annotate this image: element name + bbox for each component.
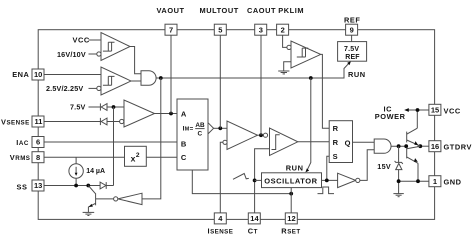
wire VCC to comparator U2 [89,39,102,41]
label ENA [12,70,29,79]
svg-text:2.5V/2.25V: 2.5V/2.25V [46,84,83,93]
svg-text:12: 12 [287,214,295,223]
wire AND gate U14 output to driver bases [391,145,408,147]
wire VAOUT to pin 7 [170,35,172,113]
node CT oscillator ramp [253,179,257,183]
pin 15 VCC [429,104,441,115]
label 14 uA [86,168,105,175]
pin 11 VSENSE [32,116,44,127]
pin 4 ISENSE [214,213,226,224]
node driver base [404,144,408,148]
svg-text:MULTOUT: MULTOUT [200,6,239,15]
node oscillator clock [325,179,329,183]
svg-text:=: = [190,126,194,133]
wire CT node to oscillator [255,179,262,181]
svg-text:ENA: ENA [12,70,29,79]
svg-text:ISENSE: ISENSE [208,226,234,235]
node soft-start clamp [112,105,116,109]
wire IAC pin 6 to multiplier B input [44,141,177,143]
wire GND rail to pin 1 [399,180,430,182]
label ISENSE [208,226,234,235]
comparator U3 (ENA 2.5V/2.25V) [97,67,131,95]
svg-text:C: C [198,130,203,137]
pin 7 VAOUT [165,24,177,35]
svg-text:16: 16 [431,142,439,151]
node low side emitter ground [416,179,420,183]
comparator U2 (VCC UVLO 16V/10V) [97,33,130,61]
svg-text:POWER: POWER [375,112,406,121]
svg-text:14 µA: 14 µA [86,168,105,175]
label IAC [16,138,29,147]
node zener clamp [397,144,401,148]
wire soft-start clamp vertical to diode D3 [113,107,115,186]
svg-text:RUN: RUN [348,70,366,79]
comparator U10 (peak limit) [287,41,321,68]
wire VCC pin 15 with IC POWER arrow [404,108,429,112]
svg-text:CAOUT: CAOUT [247,6,276,15]
label 15V zener [377,162,391,171]
pin 5 MULTOUT [214,24,226,35]
label VCC right side [444,107,461,116]
svg-text:VCC: VCC [444,107,461,116]
wire oscillator output to inverter U13 [322,179,338,181]
wire squarer X1 output to multiplier C input [146,156,177,158]
pin 1 GND [429,176,441,187]
pin 14 CT [248,213,260,224]
label RUN at oscillator [286,164,304,173]
svg-text:Q: Q [345,139,351,148]
label 2.5V/2.25V [46,84,83,93]
label VSENSE [1,117,30,126]
wire ISENSE pin 4 to current amp U7 inverting input [220,142,223,214]
svg-text:CT: CT [248,226,258,235]
svg-text:RSET: RSET [281,226,300,235]
op-amp U5 (voltage amplifier) [120,100,155,127]
wire RSET node to oscillator [290,188,292,194]
IC boundary U1 [38,30,434,220]
clock pulse waveform symbol [318,187,335,194]
pin 10 ENA [32,69,44,80]
node RUN at AND output [159,76,163,80]
label VAOUT [157,6,185,15]
pin 12 RSET [285,213,297,224]
wire MULTOUT to pin 5 [219,35,221,128]
sawtooth waveform symbol [233,174,249,180]
wire diode D1 to voltage amp U5 noninverting input [107,106,124,108]
svg-text:R: R [333,124,339,133]
node zener ground [397,179,401,183]
wire oscillator clock to flip-flop S input [327,156,329,180]
wire ENA pin 10 to comparator U3 [44,74,101,76]
squarer X1 (x squared block) [125,146,147,166]
svg-text:3: 3 [259,25,263,34]
svg-text:11: 11 [35,117,43,126]
svg-text:2: 2 [136,152,140,159]
svg-text:PKLIM: PKLIM [278,6,304,15]
current source I1 14uA soft start [69,157,83,185]
wire 2.5V/2.25V threshold to comparator U3 [89,87,97,89]
arrowhead RUN into 7.5V REF block [347,61,351,65]
svg-text:VRMS: VRMS [10,153,31,162]
wire PWM comparator U9 output to flip-flop R input [298,141,329,143]
ground symbol at zener D4 [393,194,403,197]
voltage reference block U15 (7.5V REF) [338,42,367,62]
wire 16V/10V threshold to comparator U2 [89,53,97,55]
multiplier U6 (Im = AB/C) [177,99,214,170]
svg-text:10: 10 [34,70,42,79]
svg-text:13: 13 [34,181,42,190]
pin 9 REF [346,24,358,35]
node RUN branch to oscillator [309,76,313,80]
wire VSENSE pin 11 to voltage amp U5 inverting input [44,121,119,123]
diode D2 (VSENSE clamp) [100,118,107,125]
svg-text:R: R [333,138,339,147]
AND gate U4 (enable logic) [141,71,156,86]
wire SS pin 13 rail [44,185,100,187]
zener diode D4 (15V clamp) [395,146,403,193]
svg-text:C: C [181,153,187,162]
wire RUN down to soft-start inverter U8 [142,78,161,199]
label SS [17,182,28,191]
wire comparator U10 output to flip-flop R input [321,54,330,128]
wire CT ramp to PWM comparator U9 [255,149,270,214]
inverter U8 (soft start discharge driver) [96,193,142,204]
transistor Q2 (totem pole high side) [407,110,420,146]
oscillator block U12 [262,173,322,188]
comparator U9 (PWM) [263,128,297,156]
label PKLIM [278,6,304,15]
node CAOUT [259,133,263,137]
wire VRMS pin 8 to squarer X1 [44,156,124,158]
svg-text:15: 15 [431,106,439,115]
svg-text:SS: SS [17,182,28,191]
svg-text:VAOUT: VAOUT [157,6,185,15]
wire AND gate U4 output RUN rail [156,62,350,78]
svg-text:14: 14 [250,214,259,223]
label GND [444,178,462,187]
wire multiplier U6 to RSET rail [192,170,291,194]
pin 6 IAC [32,137,44,148]
wire flip-flop Q output to AND gate U14 [353,141,375,143]
svg-text:REF: REF [344,16,360,25]
wire comparator U10 ground reference [284,62,291,71]
node VAOUT [169,112,173,116]
pin 3 CAOUT [255,24,267,35]
wire RUN to oscillator with arrowhead [305,78,310,172]
node SS discharge transistor [86,184,90,188]
wire comparator U2 output to AND gate U4 [130,47,141,74]
pin 2 PKLIM [277,24,289,35]
wire current amp U7 output to PWM comparator U9 [258,134,264,136]
label REF [344,16,360,25]
label GTDRV [444,143,472,152]
svg-text:OSCILLATOR: OSCILLATOR [264,177,317,186]
wire REF pin 9 to 7.5V REF block [351,35,353,41]
wire PKLIM pin 2 to comparator U10 [283,35,287,47]
wire voltage amp U5 output to multiplier A input [155,113,178,115]
svg-text:B: B [181,140,187,149]
svg-text:GTDRV: GTDRV [444,143,472,152]
svg-text:8: 8 [36,153,40,162]
svg-text:5: 5 [218,25,222,34]
diode D1 (7.5V clamp) [100,103,107,110]
op-amp U7 (current amplifier) [223,121,258,150]
svg-text:1: 1 [433,177,437,186]
wire 7.5V reference to diode D1 [89,106,101,108]
label MULTOUT [200,6,239,15]
inverter U13 (clock blanking) [338,173,360,187]
svg-text:16V/10V: 16V/10V [57,50,86,59]
pin 16 GTDRV [429,141,441,152]
wire inverter U13 output to AND gate U14 [360,150,374,181]
svg-text:REF: REF [345,54,360,61]
label IC POWER [375,105,406,121]
transistor Q1 (soft start discharge) [88,186,95,213]
wire comparator U3 output to AND gate U4 [131,80,141,82]
flip-flop U11 (RS latch) [329,121,352,163]
label 16V/10V [57,50,86,59]
node MULTOUT [218,126,222,130]
label CAOUT [247,6,276,15]
ground symbol at transistor Q1 [83,212,95,215]
node RSET [289,192,293,196]
svg-text:9: 9 [350,25,354,34]
svg-text:IAC: IAC [16,138,29,147]
pin 8 VRMS [32,152,44,163]
svg-text:GND: GND [444,178,462,187]
label RSET [281,226,300,235]
svg-text:7.5V: 7.5V [344,46,359,53]
svg-text:RUN: RUN [286,164,304,173]
AND gate U14 (gate drive logic) [374,139,391,153]
label RUN at REF block [348,70,366,79]
node VCC driver supply [416,108,420,112]
svg-text:VCC: VCC [73,36,90,45]
svg-text:2: 2 [281,25,285,34]
pin 13 SS [32,180,44,191]
wire RSET node to pin 12 [290,194,292,214]
wire CAOUT to pin 3 [260,35,262,135]
svg-text:S: S [333,152,338,161]
svg-text:VSENSE: VSENSE [1,117,30,126]
label CT [248,226,258,235]
ground symbol at comparator U10 [278,71,289,74]
svg-text:7.5V: 7.5V [70,103,86,112]
svg-text:x: x [131,153,136,163]
node SS current source [74,184,78,188]
svg-text:A: A [181,110,187,119]
diode D3 (soft start to voltage amp) [100,182,113,189]
wire driver output to GTDRV pin 16 [417,145,429,147]
label VCC comparator input [73,36,90,45]
svg-text:7: 7 [169,25,173,34]
wire multiplier U6 output to current amp U7 [214,127,227,129]
svg-text:6: 6 [36,138,40,147]
transistor Q3 (totem pole low side) [407,146,421,181]
svg-text:15V: 15V [377,162,391,171]
label VRMS [10,153,31,162]
node GTDRV totem pole output [418,144,422,148]
label 7.5V [70,103,86,112]
